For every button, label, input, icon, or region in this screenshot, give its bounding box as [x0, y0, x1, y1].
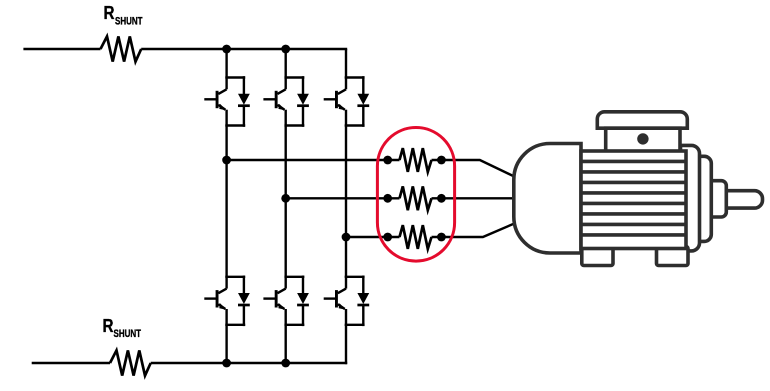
wire: top rail: [141, 48, 347, 50]
motor rear ring 1: [681, 145, 700, 251]
svg-text:SHUNT: SHUNT: [115, 15, 143, 27]
diode D3: [362, 76, 364, 94]
wire: leg 3 bottom (low-side cell to rail): [345, 325, 347, 364]
resistor phase U: [400, 148, 432, 172]
transistor Q2: [285, 77, 287, 89]
diode D4: [243, 276, 245, 294]
diode D5: [302, 276, 304, 294]
node: phase V tap junction: [281, 194, 290, 203]
wire: leg 2 top (rail to high-side cell): [285, 49, 287, 78]
wire collector jog Q5/D5: [284, 276, 304, 278]
wire collector jog Q1/D1: [225, 76, 245, 78]
node: phase resistor left terminal: [383, 233, 392, 242]
motor terminal box bolt: [637, 133, 648, 144]
wire collector jog Q6/D6: [345, 276, 365, 278]
wire emitter jog Q5/D5: [284, 324, 304, 326]
wire: leg 2 mid (high-side to low-side cell): [285, 126, 287, 277]
motor terminal box: [606, 128, 680, 153]
transistor Q4: [225, 276, 227, 288]
wire: leg 1 mid (high-side to low-side cell): [225, 126, 227, 277]
svg-text:SHUNT: SHUNT: [114, 328, 142, 340]
motor foot right: [657, 247, 689, 266]
motor shaft collar: [702, 181, 726, 217]
wire: leg 1 bottom (low-side cell to rail): [225, 325, 227, 363]
wire: phase V to motor: [432, 197, 520, 199]
node: phase resistor right terminal: [437, 156, 446, 165]
wire emitter jog Q1/D1: [225, 124, 245, 126]
wire collector jog Q4/D4: [225, 276, 245, 278]
transistor Q1: [225, 77, 227, 89]
resistor phase W: [400, 225, 432, 249]
diode D2: [302, 76, 304, 94]
wire: leg 1 top (rail to high-side cell): [225, 49, 227, 78]
wire: phase W to motor: [432, 222, 520, 238]
wire: phase V from half-bridge 2: [286, 197, 400, 199]
node: phase resistor right terminal: [437, 194, 446, 203]
transistor Q5: [285, 276, 287, 288]
node: phase U tap junction: [222, 156, 231, 165]
node: phase resistor left terminal: [383, 156, 392, 165]
motor terminal box cap: [597, 112, 687, 128]
transistor Q6: [345, 276, 347, 288]
wire emitter jog Q3/D3: [345, 124, 365, 126]
wire: DC bus top-left segment: [23, 48, 100, 50]
motor cooling fins: [581, 160, 686, 164]
wire collector jog Q3/D3: [345, 76, 365, 78]
wire: phase U to motor: [432, 160, 521, 180]
svg-text:R: R: [104, 3, 115, 23]
transistor Q3: [345, 77, 347, 89]
resistor R_SHUNT (top): [101, 36, 142, 61]
wire: leg 2 bottom (low-side cell to rail): [285, 325, 287, 363]
wire: leg 3 mid (high-side to low-side cell): [345, 126, 347, 277]
node: top rail / leg 1 junction: [222, 45, 231, 54]
motor shaft: [712, 191, 763, 208]
highlight: red rounded box around phase resistors: [377, 128, 454, 262]
wire: phase W from half-bridge 3: [346, 236, 400, 238]
motor front bell housing: [514, 144, 581, 254]
resistor phase V: [400, 186, 432, 210]
motor foot left: [582, 247, 613, 266]
wire: DC bus bottom-left segment: [32, 362, 110, 364]
wire emitter jog Q6/D6: [345, 324, 365, 326]
node: bottom rail / leg 2 junction: [281, 359, 290, 368]
node: phase resistor right terminal: [437, 233, 446, 242]
wire collector jog Q2/D2: [284, 76, 304, 78]
node: phase resistor left terminal: [383, 194, 392, 203]
svg-text:R: R: [103, 316, 114, 336]
wire emitter jog Q2/D2: [284, 124, 304, 126]
wire: bottom rail: [151, 362, 348, 364]
diode D6: [362, 276, 364, 294]
node: bottom rail / leg 1 junction: [222, 359, 231, 368]
motor body: [581, 151, 686, 249]
node: top rail / leg 2 junction: [281, 45, 290, 54]
diode D1: [243, 76, 245, 94]
resistor R_SHUNT (bottom): [110, 350, 151, 375]
node: phase W tap junction: [342, 233, 351, 242]
wire emitter jog Q4/D4: [225, 324, 245, 326]
motor rear ring 2: [676, 156, 711, 241]
wire: leg 3 top (rail to high-side cell): [345, 49, 347, 78]
wire: phase U from half-bridge 1: [227, 159, 400, 161]
